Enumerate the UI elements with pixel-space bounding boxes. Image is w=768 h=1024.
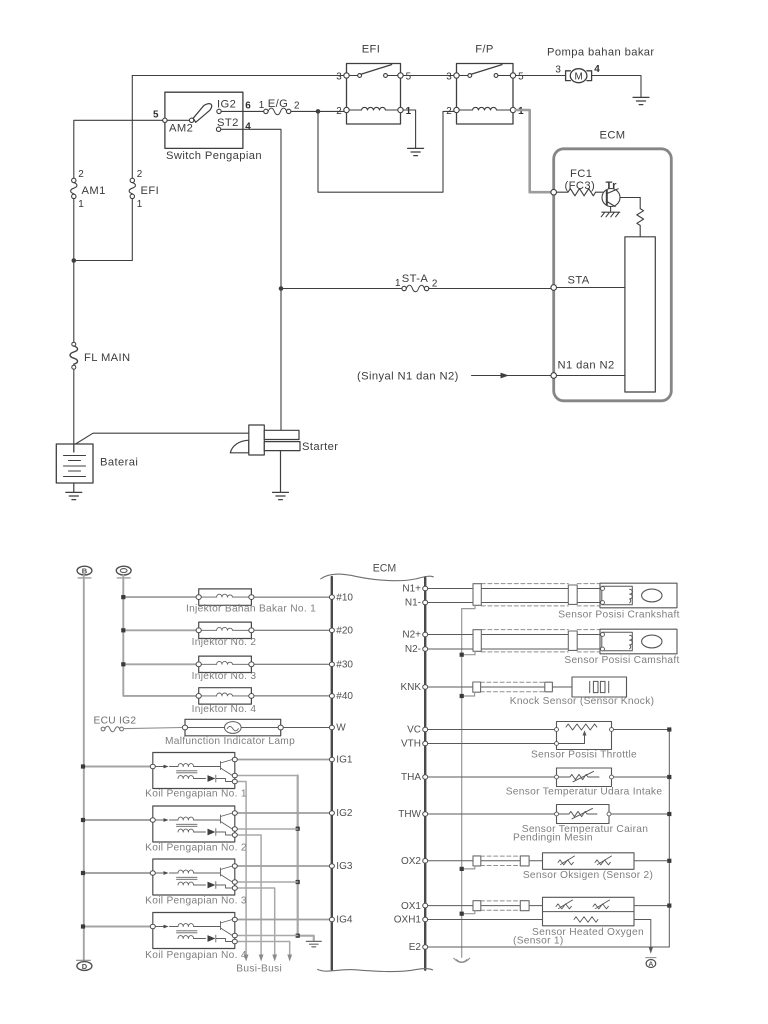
- wire coolant temp sensor to E2 bus: [609, 813, 669, 815]
- svg-text:2: 2: [137, 169, 143, 180]
- svg-text:N1-: N1-: [405, 598, 421, 609]
- fusible link FL MAIN: [70, 342, 78, 369]
- wire N1+ to crankshaft sensor: [428, 588, 602, 590]
- svg-text:1: 1: [137, 199, 143, 210]
- node junction E/G branch: [316, 109, 321, 114]
- svg-text:Injektor No. 2: Injektor No. 2: [192, 637, 257, 648]
- wire E2 to bus: [428, 946, 670, 948]
- node feed dots: [121, 595, 125, 666]
- wire junction down and across to relay F/P pin 2: [318, 111, 454, 192]
- svg-text:5: 5: [406, 71, 412, 82]
- wire injector 1 to ECM: [254, 596, 329, 598]
- svg-text:IG2: IG2: [336, 808, 353, 819]
- wire feed to koil 4: [83, 926, 151, 928]
- wire feed to koil 3: [83, 872, 151, 874]
- wire injector 4 to ECM: [254, 695, 329, 697]
- fuse EFI: [129, 178, 135, 198]
- pin FC1 of ECM: [551, 189, 557, 195]
- fuse AM1: [71, 178, 77, 198]
- wire IG4 koil to ECM: [237, 919, 329, 921]
- svg-text:W: W: [336, 723, 346, 734]
- shield cable N2: [481, 630, 600, 652]
- wire highlighted F/P pin1 to ECM FC1: [516, 110, 551, 192]
- svg-text:1: 1: [395, 278, 401, 289]
- injector no 3: [199, 656, 252, 672]
- svg-text:E/G: E/G: [268, 98, 288, 110]
- battery Baterai: [56, 444, 93, 483]
- svg-text:ECM: ECM: [599, 130, 625, 142]
- koil pengapian no 4 (igniter+coil): [153, 913, 235, 949]
- svg-text:3: 3: [555, 64, 561, 75]
- connector D circle: [77, 959, 91, 961]
- svg-text:#40: #40: [336, 691, 353, 702]
- fuel pump motor: [566, 69, 592, 83]
- svg-text:FC1: FC1: [570, 168, 592, 180]
- wire OX2 to oxygen sensor 2: [428, 860, 543, 862]
- svg-text:IG3: IG3: [336, 861, 353, 872]
- wire FL MAIN to battery: [73, 369, 75, 444]
- wire koil 1 to ground bus: [237, 775, 297, 777]
- svg-text:ST-A: ST-A: [402, 273, 429, 285]
- sensor heated oxygen (sensor 1): [543, 897, 635, 926]
- ECM band bottom tear: [318, 969, 433, 972]
- relay EFI box: [347, 64, 401, 125]
- svg-text:AM2: AM2: [169, 122, 193, 134]
- ground shield drain: [454, 958, 470, 962]
- pin N1 dan N2 of ECM: [551, 373, 557, 379]
- svg-text:E2: E2: [409, 942, 422, 953]
- ground fuel pump: [633, 97, 649, 104]
- svg-text:3: 3: [336, 71, 342, 82]
- transistor Tr: [596, 189, 641, 207]
- wire N2+ to camshaft sensor: [428, 634, 602, 636]
- svg-text:Starter: Starter: [302, 441, 338, 453]
- svg-text:FL MAIN: FL MAIN: [84, 352, 131, 364]
- ground below battery: [66, 483, 82, 500]
- svg-text:2: 2: [294, 101, 300, 112]
- wire feed to koil 2: [83, 819, 151, 821]
- svg-text:N1+: N1+: [402, 584, 421, 595]
- svg-text:Sensor Temperatur Udara Intake: Sensor Temperatur Udara Intake: [506, 787, 663, 798]
- svg-text:D: D: [82, 962, 88, 971]
- wire shield drain OX1: [462, 911, 475, 914]
- wire N2- to camshaft sensor: [428, 648, 602, 650]
- wire relay EFI pin5 to relay F/P pin3: [403, 75, 454, 77]
- pin 5 AM2 of ignition switch: [163, 118, 167, 122]
- relay EFI pins: [344, 73, 403, 113]
- svg-text:N1 dan N2: N1 dan N2: [558, 360, 615, 372]
- connector A circle: [646, 957, 656, 959]
- svg-text:IG2: IG2: [217, 99, 236, 111]
- svg-text:1: 1: [406, 106, 412, 117]
- wire shield drain OX2: [462, 866, 475, 869]
- svg-text:Sensor Oksigen (Sensor 2): Sensor Oksigen (Sensor 2): [523, 870, 653, 881]
- svg-text:5: 5: [153, 110, 159, 121]
- svg-text:OX1: OX1: [401, 901, 421, 912]
- svg-text:VTH: VTH: [401, 739, 421, 750]
- wire IG2 to E/G fuse: [221, 110, 264, 112]
- sensor temperatur udara intake: [557, 768, 612, 787]
- injector no 2: [199, 622, 252, 638]
- svg-text:THA: THA: [401, 772, 421, 783]
- node junction starter branch: [279, 286, 284, 291]
- ECM band left edge: [321, 574, 434, 581]
- pin IG2 of ignition switch: [217, 109, 221, 113]
- svg-text:Switch Pengapian: Switch Pengapian: [166, 150, 262, 162]
- wire shield drain N2: [462, 651, 475, 654]
- svg-text:Pompa bahan bakar: Pompa bahan bakar: [547, 47, 655, 59]
- svg-text:KNK: KNK: [400, 682, 421, 693]
- wire ST-A line left segment: [283, 288, 402, 290]
- wire throttle sensor to E2 bus: [612, 729, 670, 731]
- wire koil 4 to ground bus: [237, 935, 297, 937]
- node E2 bus dots: [667, 727, 671, 907]
- svg-text:2: 2: [446, 106, 452, 117]
- svg-text:THW: THW: [398, 809, 421, 820]
- svg-text:EFI: EFI: [141, 185, 160, 197]
- svg-text:2: 2: [78, 169, 84, 180]
- shield cable OX2: [481, 856, 521, 865]
- fuse E/G: [264, 108, 291, 115]
- svg-text:(Sensor 1): (Sensor 1): [513, 936, 564, 947]
- svg-text:2: 2: [336, 106, 342, 117]
- resistor to logic block: [637, 198, 644, 238]
- svg-text:1: 1: [259, 100, 265, 111]
- wire shield drain N1: [462, 605, 475, 957]
- wire feed B vertical: [83, 575, 85, 960]
- wire sinyal arrow to ECM: [472, 375, 551, 377]
- wire E2 bus vertical: [668, 730, 670, 948]
- svg-text:IG1: IG1: [336, 755, 353, 766]
- wire starter drop: [280, 289, 282, 431]
- wire ground bus koil: [298, 776, 314, 941]
- wire koil 2 to ground bus: [237, 828, 297, 830]
- wire koil 2 to spark plug: [237, 835, 261, 955]
- wire koil 4 to spark plug: [237, 942, 289, 955]
- wire oxygen sensor 2 to E2 bus: [634, 860, 669, 862]
- ground below starter: [273, 451, 289, 500]
- lamp MIL: [188, 727, 279, 729]
- svg-text:Sensor Posisi Throttle: Sensor Posisi Throttle: [531, 750, 637, 761]
- injector no 4: [199, 688, 252, 704]
- svg-text:B: B: [82, 566, 88, 575]
- svg-text:Injektor Bahan Bakar No. 1: Injektor Bahan Bakar No. 1: [186, 604, 316, 615]
- svg-text:F/P: F/P: [475, 43, 494, 55]
- pin STA of ECM: [551, 285, 557, 291]
- relay EFI contacts: [349, 65, 398, 78]
- ECM band right edge: [424, 578, 426, 970]
- wire koil 3 to spark plug: [237, 888, 274, 955]
- svg-text:N2+: N2+: [402, 630, 421, 641]
- wire IG1 koil to ECM: [237, 759, 329, 761]
- svg-text:STA: STA: [568, 275, 590, 287]
- svg-text:AM1: AM1: [82, 185, 106, 197]
- wire feed C vertical to injectors: [123, 575, 196, 696]
- wire THW to coolant temp sensor: [428, 813, 557, 815]
- svg-text:Koil Pengapian No. 2: Koil Pengapian No. 2: [145, 842, 247, 853]
- svg-text:EFI: EFI: [362, 43, 381, 55]
- svg-text:ST2: ST2: [217, 117, 239, 129]
- koil pengapian no 2 (igniter+coil): [153, 806, 235, 842]
- wire feed to koil 1: [83, 766, 151, 768]
- svg-text:OXH1: OXH1: [394, 915, 422, 926]
- svg-text:5: 5: [518, 71, 524, 82]
- wire AM1 fuse down to fusible link: [73, 199, 75, 342]
- wire OX1 to heated oxygen sensor: [428, 905, 543, 907]
- wire THA to intake air temp sensor: [428, 776, 557, 778]
- wire OXH1 to heated oxygen heater: [428, 919, 543, 921]
- wire MIL to ECM W: [283, 727, 329, 729]
- svg-text:Koil Pengapian No. 3: Koil Pengapian No. 3: [145, 896, 247, 907]
- ECM right pins: [423, 586, 428, 591]
- sensor posisi throttle: [557, 722, 612, 750]
- ground below transistor: [601, 207, 620, 217]
- shield cable OX1: [481, 901, 521, 910]
- relay F/P coil: [459, 107, 511, 110]
- starter assembly: [230, 425, 300, 455]
- wire heated oxygen sensor to E2 bus: [634, 905, 669, 907]
- svg-text:3: 3: [446, 71, 452, 82]
- svg-text:Knock Sensor (Sensor Knock): Knock Sensor (Sensor Knock): [510, 696, 655, 707]
- relay EFI coil: [349, 107, 398, 110]
- svg-text:Koil Pengapian No. 1: Koil Pengapian No. 1: [145, 789, 247, 800]
- sensor posisi camshaft: [600, 629, 677, 654]
- injector no 1: [199, 589, 252, 605]
- wire N1- to crankshaft sensor: [428, 602, 602, 604]
- wire N1 dan N2 to logic block: [557, 375, 625, 377]
- sensor posisi crankshaft: [600, 583, 677, 608]
- ground EFI relay: [408, 148, 424, 155]
- svg-text:Malfunction Indicator Lamp: Malfunction Indicator Lamp: [165, 736, 295, 747]
- wire AM2 from ignition switch to AM1 fuse: [74, 120, 163, 178]
- logic block inside ECM: [625, 237, 655, 392]
- sensor oksigen (sensor 2): [543, 853, 635, 870]
- relay F/P pins: [454, 73, 516, 113]
- knock sensor: [572, 677, 627, 697]
- ground koil bus: [306, 941, 321, 947]
- ECM box top schematic: [554, 149, 672, 401]
- wire VTH to throttle sensor: [428, 743, 557, 745]
- resistor FC1: [557, 189, 596, 196]
- svg-text:M: M: [574, 71, 582, 82]
- switch lever: [167, 119, 189, 121]
- fuse ECU IG2: [101, 726, 123, 731]
- svg-text:VC: VC: [407, 725, 421, 736]
- koil pengapian no 1 (igniter+coil): [153, 753, 235, 789]
- svg-text:4: 4: [594, 64, 600, 75]
- svg-text:Pendingin Mesin: Pendingin Mesin: [513, 832, 593, 843]
- relay F/P contacts: [459, 65, 511, 78]
- fuse ST-A: [402, 285, 429, 292]
- node junction AM1/EFI branch: [72, 258, 77, 263]
- shield cable N1: [481, 584, 600, 606]
- svg-text:Baterai: Baterai: [100, 457, 138, 469]
- wire top rail from EFI fuse to relay EFI pin 3: [132, 75, 344, 77]
- svg-text:#10: #10: [336, 592, 353, 603]
- wire EFI fuse branch vertical: [131, 76, 133, 179]
- wire EFI fuse to junction with AM1 branch: [76, 199, 132, 261]
- wire battery positive to starter: [76, 433, 249, 444]
- wire koil 1 to spark plug: [237, 782, 246, 955]
- svg-text:#20: #20: [336, 626, 353, 637]
- wire IG2 koil to ECM: [237, 812, 329, 814]
- wire relay EFI pin1 to ground: [403, 110, 415, 148]
- switch Pengapian box: [165, 92, 243, 148]
- wire VC to throttle sensor: [428, 729, 557, 731]
- wire ECU IG2 to MIL: [124, 728, 183, 729]
- svg-text:#30: #30: [336, 660, 353, 671]
- koil pengapian no 3 (igniter+coil): [153, 859, 235, 895]
- wire ST-A fuse to ECM STA pin: [429, 288, 551, 290]
- svg-text:IG4: IG4: [336, 915, 353, 926]
- svg-text:ECM: ECM: [373, 562, 397, 574]
- wire heater to connector A: [634, 920, 651, 948]
- wire injector 3 to ECM: [254, 663, 329, 665]
- svg-text:N2-: N2-: [405, 644, 421, 655]
- svg-text:A: A: [649, 961, 654, 968]
- svg-text:ECU IG2: ECU IG2: [94, 716, 137, 727]
- svg-text:1: 1: [78, 199, 84, 210]
- wire KNK to knock sensor: [428, 686, 572, 688]
- wire shield drain KNK: [462, 692, 475, 696]
- wire E/G fuse to relay EFI pin 2: [291, 110, 344, 112]
- wire F/P pin5 to fuel pump: [516, 75, 565, 77]
- svg-text:OX2: OX2: [401, 856, 421, 867]
- connector C circle: [116, 566, 131, 575]
- svg-text:6: 6: [245, 100, 251, 111]
- svg-text:4: 4: [245, 122, 251, 133]
- wire ST2 down to ST-A fuse line: [221, 129, 281, 288]
- node bus dots: [296, 827, 300, 938]
- wire STA to logic block: [557, 287, 625, 289]
- wire injector 2 to ECM: [254, 629, 329, 631]
- svg-text:Sensor Posisi Crankshaft: Sensor Posisi Crankshaft: [558, 609, 680, 620]
- svg-text:Injektor No. 4: Injektor No. 4: [192, 704, 257, 715]
- Malfunction Indicator Lamp box: [185, 719, 281, 736]
- svg-text:(Sinyal N1 dan N2): (Sinyal N1 dan N2): [357, 371, 459, 383]
- pin ST2 of ignition switch: [216, 127, 220, 131]
- shield cable KNK: [480, 682, 545, 692]
- svg-text:Koil Pengapian No. 4: Koil Pengapian No. 4: [145, 950, 247, 961]
- relay F/P box: [457, 64, 514, 125]
- wire IG3 koil to ECM: [237, 865, 329, 867]
- wire injector feed branches: [123, 597, 196, 664]
- wire intake air temp sensor to E2 bus: [612, 776, 670, 778]
- sensor temperatur cairan pendingin: [557, 805, 610, 824]
- wire pump to ground: [592, 76, 641, 97]
- svg-text:Busi-Busi: Busi-Busi: [236, 964, 282, 975]
- svg-text:Injektor No. 3: Injektor No. 3: [192, 671, 257, 682]
- svg-text:Sensor Posisi Camshaft: Sensor Posisi Camshaft: [564, 655, 679, 666]
- connector B circle: [77, 566, 92, 575]
- wire koil 3 to ground bus: [237, 881, 297, 883]
